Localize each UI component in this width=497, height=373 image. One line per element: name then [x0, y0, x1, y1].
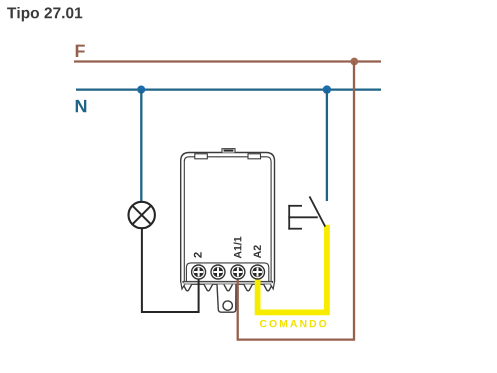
terminal label A1/1 — [234, 237, 242, 259]
wire F to terminal A1/1 — [238, 62, 354, 340]
net label F — [76, 45, 85, 57]
wire F line — [74, 60, 381, 62]
wire N to switch contact — [326, 90, 328, 201]
wire A2 comando yellow — [258, 225, 327, 313]
relay module top clip — [222, 149, 235, 153]
wire N to lamp — [140, 90, 142, 201]
relay module terminal plate — [186, 263, 268, 282]
title Tipo 27.01 — [7, 7, 82, 21]
terminal A2 screw — [251, 265, 265, 279]
terminal 2 screw — [192, 265, 206, 279]
pushbutton switch blade — [310, 196, 326, 226]
terminal label A2 — [254, 245, 261, 258]
junction F to coil — [350, 58, 358, 66]
terminal (unlabelled) screw — [211, 265, 225, 279]
relay module right latch — [248, 154, 261, 159]
relay module 27.01 body — [181, 153, 275, 283]
wire lamp to terminal 2 — [142, 228, 199, 312]
relay module bottom strip — [183, 281, 273, 284]
relay module sawtooth teeth — [183, 284, 272, 290]
junction N to switch — [323, 85, 331, 93]
pushbutton switch actuator — [288, 205, 318, 230]
relay module left latch — [195, 154, 208, 159]
relay module left foot — [181, 282, 185, 289]
junction N to lamp — [137, 86, 145, 94]
lamp E1 — [129, 202, 155, 228]
terminal A1/1 screw — [231, 265, 245, 279]
terminal label 2 — [194, 252, 202, 257]
net label N — [76, 100, 87, 112]
wire N line — [76, 88, 381, 90]
relay module mounting tab — [217, 284, 236, 312]
relay module right foot — [271, 282, 275, 289]
label COMANDO — [260, 320, 327, 327]
